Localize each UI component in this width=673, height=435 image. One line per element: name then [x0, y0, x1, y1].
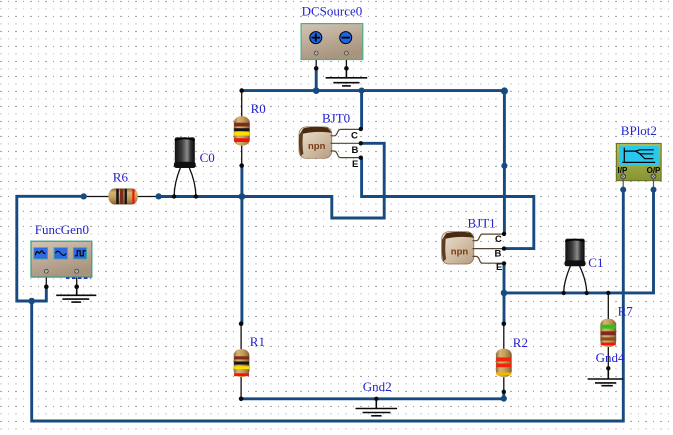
wire R0 node to BJT0 base — [242, 143, 384, 218]
transistor BJT0 — [299, 127, 361, 170]
terminal BJT0 emitter — [359, 156, 363, 160]
svg-text:R2: R2 — [513, 335, 528, 350]
ground under FuncGen0 — [56, 287, 96, 302]
svg-text:I/P: I/P — [618, 166, 628, 175]
resistor R2 — [496, 349, 512, 378]
terminal R2 top — [502, 322, 507, 327]
capacitor C0 — [174, 137, 196, 168]
lead R7 bottom — [607, 347, 609, 368]
terminal FuncGen0 right — [74, 284, 79, 289]
svg-text:R0: R0 — [251, 101, 266, 116]
svg-text:E: E — [352, 159, 358, 170]
wire R6 right to R0 node — [159, 195, 242, 198]
terminal C1 left — [562, 291, 566, 295]
lead R0 bottom — [241, 146, 243, 166]
lead FuncGen0 left pin — [45, 273, 47, 287]
wire rail to BJT0 collector — [360, 91, 363, 129]
svg-text:BJT0: BJT0 — [322, 111, 350, 126]
wire R0 bottom to R1 top — [240, 166, 243, 324]
junction BJT0 collector on rail — [359, 88, 365, 94]
ground Gnd4 — [588, 368, 624, 385]
svg-text:B: B — [352, 145, 359, 156]
terminal R1 top — [239, 321, 244, 326]
terminal DCSource0 plus — [314, 66, 319, 71]
svg-text:FuncGen0: FuncGen0 — [35, 222, 89, 237]
junction rail right corner — [501, 87, 508, 94]
lead FuncGen0 right pin — [76, 273, 78, 287]
junction DCSource0 plus on rail — [313, 87, 320, 94]
junction R0 bottom node — [239, 193, 246, 200]
pin node BPlot2 I/P — [620, 187, 626, 193]
terminal R7 bottom — [606, 366, 610, 370]
terminal C1 right — [585, 291, 589, 295]
wire left rail to FuncGen0 left pin — [17, 196, 84, 301]
junction R6 left node — [81, 193, 87, 199]
wire FuncGen0 node down along bottom to BPlot2 I/P — [32, 189, 624, 421]
terminal Gnd2 stem — [374, 397, 378, 401]
junction FuncGen0 bottom node — [28, 298, 35, 305]
lead C1 left leg — [564, 266, 571, 293]
function generator FuncGen0 — [31, 241, 92, 278]
junction right drop mid — [501, 163, 507, 169]
wire BJT0 emitter to BJT1 base — [362, 158, 534, 249]
wire top rail Vcc — [242, 89, 505, 92]
lead DCSource0 plus pin — [315, 55, 317, 69]
ground Gnd2 — [356, 399, 398, 416]
resistor R0 — [234, 116, 250, 145]
svg-text:R1: R1 — [250, 334, 265, 349]
terminal BJT0 collector — [359, 127, 363, 131]
DC source DCSource0 — [301, 24, 363, 60]
svg-text:E: E — [496, 262, 502, 273]
bode plotter BPlot2 — [616, 144, 661, 190]
junction BJT1 emitter node — [501, 290, 508, 297]
lead C0 right leg — [189, 168, 196, 197]
wire DCSource0 + to rail — [315, 68, 318, 90]
svg-text:npn: npn — [308, 141, 326, 152]
transistor BJT1 — [442, 232, 504, 273]
resistor R1 — [234, 349, 250, 377]
terminal R0 top — [239, 88, 244, 93]
wire Gnd2 rail R1 to R2 — [241, 397, 504, 400]
terminal R0 bottom — [239, 163, 244, 168]
svg-text:C: C — [495, 234, 502, 245]
svg-text:C1: C1 — [588, 255, 603, 270]
lead R6 left — [84, 196, 109, 198]
resistor R6 — [108, 188, 137, 204]
terminal R2 bottom — [502, 390, 506, 394]
terminal BJT0 base — [359, 141, 363, 145]
svg-text:Gnd2: Gnd2 — [363, 379, 392, 394]
wire BJT1 emitter node rail — [504, 189, 654, 293]
svg-text:B: B — [495, 248, 502, 259]
lead R1 top — [240, 324, 242, 350]
terminal BJT1 emitter — [502, 261, 506, 265]
svg-text:C0: C0 — [200, 150, 215, 165]
terminal R1 bottom — [239, 397, 244, 402]
svg-text:BJT1: BJT1 — [468, 216, 496, 231]
svg-text:O/P: O/P — [647, 166, 661, 175]
terminal DCSource0 minus — [344, 66, 349, 71]
terminal R7 top — [606, 291, 610, 295]
lead R2 top — [503, 324, 505, 349]
svg-text:C: C — [351, 131, 358, 142]
terminal C0 right — [194, 194, 198, 198]
svg-text:BPlot2: BPlot2 — [621, 123, 657, 138]
lead R7 top — [607, 293, 609, 319]
resistor R7 — [600, 319, 616, 347]
wire rail right drop to BJT1 collector — [503, 91, 506, 234]
svg-text:R7: R7 — [618, 304, 634, 319]
terminal BJT1 collector — [502, 232, 506, 236]
lead R1 bottom — [240, 377, 242, 399]
junction R6 right node — [156, 193, 162, 199]
pin node BPlot2 O/P — [651, 187, 657, 193]
terminal BJT1 base — [502, 246, 506, 250]
lead R6 right — [138, 196, 159, 198]
lead R2 bottom — [503, 377, 505, 392]
junction R2 bottom on Gnd2 rail — [501, 396, 507, 402]
svg-text:Gnd4: Gnd4 — [596, 350, 625, 365]
lead C1 right leg — [580, 266, 587, 293]
svg-text:DCSource0: DCSource0 — [302, 4, 363, 19]
svg-text:npn: npn — [451, 247, 469, 258]
terminal C0 left — [172, 194, 176, 198]
svg-text:R6: R6 — [113, 170, 129, 185]
wire BJT1 emitter node down to R2 — [503, 293, 506, 324]
lead R0 top — [241, 91, 243, 117]
lead C0 left leg — [174, 168, 180, 197]
terminal FuncGen0 left — [44, 284, 49, 289]
lead DCSource0 minus pin — [345, 55, 347, 69]
wire R2 bottom stub — [502, 392, 505, 399]
ground under DCSource0 — [326, 68, 368, 86]
capacitor C1 — [565, 239, 586, 267]
